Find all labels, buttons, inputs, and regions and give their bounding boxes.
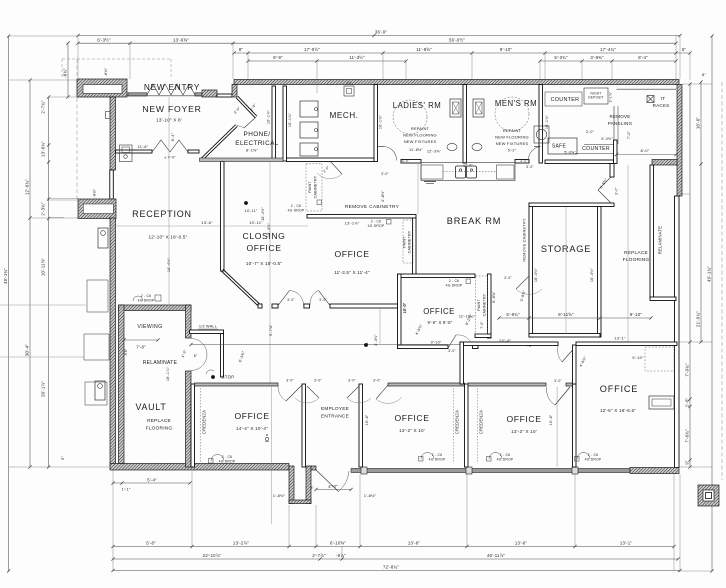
svg-text:3'-1⅝": 3'-1⅝" [609, 91, 613, 102]
vault right wall lower [186, 371, 192, 467]
mech panel 1 [300, 101, 318, 117]
svg-text:2 - C6: 2 - C6 [371, 220, 381, 224]
svg-text:9'-7¾": 9'-7¾" [269, 324, 273, 336]
svg-text:ø: ø [266, 433, 268, 437]
svg-text:3'-0": 3'-0" [586, 130, 595, 134]
svg-text:FLOORING: FLOORING [146, 426, 173, 432]
svg-text:10'-0": 10'-0" [403, 302, 407, 313]
canopy dashed outline [62, 58, 171, 60]
dim bottom row2 [113, 558, 678, 560]
svg-text:9'-10": 9'-10" [431, 341, 442, 345]
svg-text:13'-6": 13'-6" [201, 220, 213, 225]
entry storefront glass left [128, 93, 147, 96]
svg-text:5'-4": 5'-4" [147, 477, 157, 482]
svg-text:OFFICE: OFFICE [423, 307, 455, 316]
svg-text:REPAINT: REPAINT [503, 128, 522, 133]
storage bottom dim line [499, 317, 651, 319]
middle office north wall [307, 215, 416, 219]
svg-text:12'-5" X 16'-6.5": 12'-5" X 16'-6.5" [600, 408, 636, 413]
employee alcove left wall [289, 466, 294, 504]
dim connector y217 [49, 217, 64, 219]
reception centerline [168, 97, 170, 305]
svg-text:4G DROP: 4G DROP [288, 209, 305, 213]
svg-text:RACKS: RACKS [653, 103, 670, 108]
svg-text:8": 8" [239, 47, 244, 52]
big office dotted closet [645, 347, 674, 371]
bottom wall stub right of alcove [311, 466, 316, 470]
entry corner post [232, 85, 237, 98]
ladies sink [447, 143, 457, 150]
mens east wall [539, 85, 543, 164]
svg-text:5'-3¾": 5'-3¾" [554, 55, 568, 60]
office2 door [555, 387, 570, 405]
top main wall [234, 80, 679, 85]
svg-text:RELAMINATE: RELAMINATE [658, 226, 663, 254]
vault left wall [119, 305, 125, 464]
closing office diagonal wall [221, 271, 259, 307]
svg-text:10'-8": 10'-8" [365, 414, 369, 425]
extension line x557 [556, 387, 558, 467]
kitchen dw box [421, 165, 443, 179]
office1 door [376, 385, 388, 399]
svg-text:14'-4" X 10'-4": 14'-4" X 10'-4" [236, 426, 268, 431]
svg-text:16'-4½": 16'-4½" [590, 267, 594, 282]
entry corner hatched block [202, 90, 217, 97]
svg-text:9'-10": 9'-10" [500, 47, 512, 52]
dim right col inner [689, 84, 691, 467]
svg-text:8'-4": 8'-4" [171, 132, 175, 141]
svg-text:PHONE/: PHONE/ [244, 131, 271, 138]
svg-text:30'-4": 30'-4" [25, 344, 30, 356]
corridor dim line [191, 344, 529, 346]
svg-text:MECH.: MECH. [330, 111, 359, 120]
svg-text:13'-6¾": 13'-6¾" [41, 141, 46, 157]
svg-text:4G DROP: 4G DROP [219, 460, 236, 464]
it room inner face line [617, 88, 677, 90]
paint cab note 2 [403, 220, 413, 263]
dim left col3 [48, 97, 50, 467]
big office window box [649, 396, 674, 409]
svg-text:5": 5" [682, 47, 687, 52]
small office west wall [398, 274, 402, 349]
svg-text:8'-0": 8'-0" [641, 148, 650, 153]
svg-text:49'-1¾": 49'-1¾" [707, 266, 712, 282]
column detail [698, 485, 719, 506]
svg-text:3'-0": 3'-0" [373, 379, 381, 383]
paint cab note 3 [476, 276, 488, 334]
safe box [548, 138, 577, 154]
svg-text:56'-0½": 56'-0½" [449, 37, 465, 42]
breakrm centerline [417, 163, 419, 214]
entry corner block NW [77, 79, 127, 97]
paint cab note 1 [306, 164, 322, 212]
svg-text:-8¾": -8¾" [63, 68, 68, 78]
small office north wall [398, 274, 476, 278]
vault right wall upper [186, 305, 192, 338]
dim connector y198 [47, 197, 78, 199]
foyer south wall right [188, 150, 199, 153]
teller counter vertical [613, 106, 615, 144]
svg-text:10'-7" X 18'-0.5": 10'-7" X 18'-0.5" [246, 261, 282, 266]
svg-text:COUNTER: COUNTER [551, 97, 580, 103]
svg-text:3'-0": 3'-0" [286, 379, 294, 383]
svg-text:OFFICE: OFFICE [394, 413, 429, 423]
svg-text:10'-6": 10'-6" [696, 117, 701, 129]
employee entrance doors [307, 386, 319, 398]
svg-text:OFFICE: OFFICE [334, 249, 369, 259]
svg-text:10'-1⅝": 10'-1⅝" [267, 109, 271, 124]
mid office south wall long [330, 304, 398, 308]
viewing dim line [124, 339, 158, 341]
closing top wall [200, 158, 284, 162]
svg-text:7'-9¾": 7'-9¾" [685, 363, 690, 377]
kitchen dotted line [443, 171, 497, 173]
svg-text:16'-4½": 16'-4½" [534, 267, 538, 282]
middle office east wall [413, 218, 417, 275]
dim top row2 [78, 42, 676, 44]
svg-text:6'-3½": 6'-3½" [97, 37, 111, 42]
office1 north wall [388, 383, 465, 386]
counter1 outline [545, 92, 582, 106]
svg-text:11'-9⅝": 11'-9⅝" [416, 47, 432, 52]
employee alcove bottom [289, 500, 311, 504]
svg-text:-9⅞": -9⅞" [336, 553, 346, 558]
svg-text:12'-3⅝": 12'-3⅝" [427, 150, 442, 154]
left wall lower [110, 218, 116, 466]
mech vent [344, 86, 354, 96]
svg-text:1'-8½": 1'-8½" [273, 493, 286, 498]
svg-text:3'-9⅜": 3'-9⅜" [590, 55, 604, 60]
dim left col4 [67, 43, 69, 97]
foyer wall box [106, 112, 111, 119]
svg-text:9'-10": 9'-10" [630, 312, 642, 317]
svg-text:13'-2" X 10': 13'-2" X 10' [399, 428, 425, 433]
svg-text:1¼: 1¼ [346, 81, 351, 85]
svg-text:VAULT: VAULT [135, 402, 166, 412]
svg-text:OFFICE: OFFICE [600, 384, 639, 394]
extension line x380 [379, 308, 381, 344]
ladies door [384, 147, 397, 161]
right area centerline [627, 165, 629, 342]
svg-text:CLOSING: CLOSING [243, 231, 286, 241]
svg-text:3'-0": 3'-0" [526, 165, 534, 169]
dim top row4a [248, 60, 406, 62]
it door jamb wall [614, 140, 618, 164]
svg-text:8": 8" [194, 354, 198, 358]
big office north wall [460, 342, 558, 346]
svg-text:9": 9" [685, 460, 690, 465]
drive island 2 [84, 334, 109, 360]
office1440 east wall [302, 384, 306, 467]
svg-text:-8¾": -8¾" [93, 188, 97, 197]
office1440 door [286, 385, 302, 401]
svg-text:±0'-0": ±0'-0" [463, 164, 473, 168]
svg-text:SAFE: SAFE [552, 144, 567, 150]
svg-text:3'-0": 3'-0" [448, 349, 456, 353]
office2 east wall [573, 384, 577, 467]
svg-text:12'-6¾": 12'-6¾" [25, 179, 30, 195]
svg-text:3'-0": 3'-0" [314, 379, 322, 383]
svg-text:3'-0": 3'-0" [319, 298, 327, 302]
svg-text:2'-7¾": 2'-7¾" [41, 100, 46, 114]
svg-text:10'-1⅝": 10'-1⅝" [288, 112, 292, 127]
kitchen front hatch [424, 181, 436, 183]
svg-text:13'-1": 13'-1" [614, 336, 626, 341]
svg-text:11'-8½": 11'-8½" [409, 148, 423, 152]
relaminate stub wall [650, 297, 676, 301]
svg-text:3'-0": 3'-0" [381, 172, 389, 176]
svg-text:REMOVE CABINETRY: REMOVE CABINETRY [522, 218, 527, 262]
mens south wall [515, 160, 529, 164]
office1440 north wall [195, 383, 279, 386]
svg-text:5'-0⅝": 5'-0⅝" [564, 151, 576, 155]
svg-text:36'-9": 36'-9" [375, 30, 387, 35]
entry storefront glass right [195, 93, 202, 96]
svg-text:REMOVE CABINETRY: REMOVE CABINETRY [345, 204, 400, 210]
dim bottom extension lines [112, 470, 114, 571]
svg-text:OFFICE: OFFICE [506, 414, 541, 424]
mech south wall [287, 158, 375, 162]
svg-text:NEW FOYER: NEW FOYER [142, 104, 201, 114]
dashed property line right [721, 82, 723, 480]
foyer fountain [120, 145, 133, 162]
svg-text:8'-11⅝": 8'-11⅝" [558, 312, 574, 317]
svg-text:NEW ENTRY: NEW ENTRY [144, 83, 200, 92]
mens dashed circle [495, 97, 529, 131]
svg-text:RELAMINATE: RELAMINATE [143, 360, 178, 366]
svg-text:17'-4¾": 17'-4¾" [600, 47, 616, 52]
employee alcove right wall [306, 466, 311, 504]
new entry door pair 2 [171, 84, 183, 95]
half wall [190, 330, 224, 334]
mech panel 3 [300, 143, 318, 156]
closing office west wall [221, 162, 225, 272]
counter2 lines [584, 144, 614, 146]
small office door [448, 335, 456, 348]
svg-text:1'-8½": 1'-8½" [364, 493, 377, 498]
kitchen right box [497, 165, 515, 179]
closing office south wall [258, 304, 262, 308]
svg-text:ELECTRICAL: ELECTRICAL [235, 140, 278, 147]
storage west wall [529, 203, 533, 337]
svg-text:NEW FLOORING: NEW FLOORING [403, 133, 437, 138]
new entry door pair 1 [147, 84, 159, 95]
dim bottom 4'-0 line [316, 489, 351, 491]
svg-text:5": 5" [60, 456, 65, 460]
phone SW diagonal wall [200, 125, 236, 160]
closing door 1 [278, 291, 290, 306]
svg-text:2'-3¾": 2'-3¾" [41, 202, 46, 216]
svg-text:18'-1⅞": 18'-1⅞" [166, 366, 170, 381]
restroom divider wall [463, 85, 467, 164]
ladies toilet [450, 99, 461, 117]
drive-up unit B [95, 381, 105, 400]
vault door swing [191, 339, 207, 371]
svg-text:VIEWING: VIEWING [137, 324, 162, 330]
svg-text:3'-0": 3'-0" [348, 379, 356, 383]
employee door leaf [316, 470, 339, 492]
svg-text:8'-1⅝": 8'-1⅝" [246, 149, 258, 153]
svg-text:DEPOSIT: DEPOSIT [588, 96, 603, 100]
svg-text:3'-0": 3'-0" [287, 298, 295, 302]
svg-text:CABINETRY: CABINETRY [314, 175, 318, 198]
svg-text:PAINT: PAINT [477, 299, 481, 311]
svg-text:13'-6⅝": 13'-6⅝" [173, 37, 189, 42]
left wall window recess [110, 170, 114, 199]
svg-text:2 - C6: 2 - C6 [449, 279, 459, 283]
svg-text:8": 8" [702, 72, 706, 77]
svg-text:18'-4½": 18'-4½" [261, 207, 265, 221]
svg-text:± 4'-0": ± 4'-0" [164, 156, 176, 160]
dim right col mid [700, 82, 702, 342]
svg-text:IT: IT [661, 96, 665, 101]
svg-text:3'-0": 3'-0" [554, 379, 562, 383]
svg-text:1'-1": 1'-1" [122, 487, 131, 492]
phone door leaf [244, 117, 256, 128]
svg-text:21'-9¾": 21'-9¾" [696, 311, 701, 327]
svg-text:13'-1": 13'-1" [620, 540, 632, 545]
svg-text:6'-10⅝": 6'-10⅝" [330, 540, 346, 545]
svg-text:7'-0": 7'-0" [480, 321, 484, 329]
storage north wall [529, 203, 614, 207]
svg-text:CABINETRY: CABINETRY [483, 293, 487, 316]
ladies south wall [401, 160, 421, 164]
svg-text:5'-8¾": 5'-8¾" [492, 291, 496, 303]
svg-text:3'-0": 3'-0" [615, 187, 619, 195]
water heater [534, 126, 549, 143]
reception centerline 2 [269, 162, 271, 384]
phone NW diagonal wall [236, 98, 255, 118]
svg-text:2 - C6: 2 - C6 [141, 294, 151, 298]
kitchen counter outline [421, 163, 515, 181]
bottom wall left hatched [110, 464, 289, 471]
mech west wall [283, 86, 287, 161]
dim top row1 36'-9" [78, 35, 680, 37]
svg-text:NEW FIXTURES: NEW FIXTURES [404, 139, 437, 144]
svg-text:11'-8": 11'-8" [138, 145, 149, 149]
dim top row3 [234, 52, 690, 54]
teller window C [78, 199, 116, 219]
svg-text:5'-8": 5'-8" [146, 540, 156, 545]
svg-text:CREDENZA: CREDENZA [455, 410, 460, 434]
reception dim line [115, 225, 308, 227]
svg-text:8'-9": 8'-9" [273, 55, 283, 60]
svg-text:PAINT: PAINT [403, 236, 407, 248]
drive lane line 3 [0, 304, 86, 306]
office1440 ext line [271, 386, 273, 524]
mech panel 2 [300, 122, 318, 138]
office1 east wall [465, 384, 469, 467]
svg-text:3'-0": 3'-0" [520, 159, 528, 163]
drive island 3 [85, 382, 107, 405]
office2 credenza [477, 388, 479, 463]
svg-text:OFFICE: OFFICE [246, 243, 281, 253]
svg-text:11'-3½": 11'-3½" [349, 55, 365, 60]
svg-text:5'-8¾": 5'-8¾" [506, 312, 520, 317]
svg-text:1/2 WALL: 1/2 WALL [199, 325, 217, 329]
dim left extension stubs [9, 79, 77, 81]
svg-text:10'-8": 10'-8" [549, 414, 553, 425]
svg-text:BREAK RM: BREAK RM [447, 216, 501, 226]
svg-text:OFFICE: OFFICE [234, 411, 269, 421]
it dim 8-0 line [617, 154, 677, 156]
svg-text:RECEPTION: RECEPTION [132, 209, 192, 219]
svg-text:13'-1⅞": 13'-1⅞" [345, 221, 360, 226]
svg-text:4G DROP: 4G DROP [585, 458, 602, 462]
svg-text:FLOORING: FLOORING [623, 257, 650, 263]
entry wall to corner [217, 94, 232, 97]
south wall door post [304, 304, 310, 308]
closing door 2 (mid office) [319, 291, 331, 306]
entry threshold line [127, 95, 202, 97]
replace flooring wall [650, 165, 654, 299]
storage east wall [598, 207, 602, 338]
svg-text:49'-1¾": 49'-1¾" [3, 268, 8, 284]
svg-text:REPLACE: REPLACE [624, 250, 648, 256]
svg-text:9'-10": 9'-10" [632, 355, 644, 360]
replace flooring west wall stub [610, 164, 614, 178]
svg-text:STOP: STOP [222, 375, 235, 380]
svg-text:10'-11": 10'-11" [245, 209, 258, 213]
svg-text:7'-6¾": 7'-6¾" [685, 429, 690, 443]
bottom wall posts [361, 467, 367, 474]
svg-text:1'-6": 1'-6" [685, 397, 690, 407]
svg-text:10'-11⅝": 10'-11⅝" [41, 258, 46, 276]
svg-text:10'-1⅝": 10'-1⅝" [545, 114, 549, 129]
svg-text:3'-0": 3'-0" [402, 159, 410, 163]
it wall stub [652, 160, 677, 166]
corridor dot 2 [528, 343, 532, 347]
big office door [562, 346, 576, 362]
svg-text:CREDENZA: CREDENZA [479, 410, 484, 434]
svg-text:CREDENZA: CREDENZA [202, 410, 207, 434]
it racks checkbox [647, 96, 654, 103]
small office south wall [398, 345, 449, 349]
ladies dashed circle [393, 100, 427, 134]
svg-text:8'8": 8'8" [124, 348, 128, 355]
credenza office1440 [200, 388, 202, 463]
mens sink [472, 143, 482, 150]
dim bottom small row A [113, 482, 190, 484]
svg-text:2'-7⅞": 2'-7⅞" [312, 553, 326, 558]
svg-text:9'-6" X 9'-8": 9'-6" X 9'-8" [428, 320, 453, 325]
svg-text:LADIES' RM: LADIES' RM [393, 101, 442, 110]
svg-text:-8¾": -8¾" [104, 67, 108, 76]
foyer south wall left [116, 150, 153, 153]
svg-text:17'-0½": 17'-0½" [304, 47, 320, 52]
svg-text:REMOVE: REMOVE [609, 114, 630, 119]
svg-text:12'-10" X 18'-0.5": 12'-10" X 18'-0.5" [148, 235, 187, 240]
drive lane dashed line [76, 59, 78, 199]
svg-text:5'-2": 5'-2" [508, 149, 517, 153]
mens door [528, 147, 540, 161]
office1 credenza [453, 388, 455, 463]
svg-text:13'-10" X 8': 13'-10" X 8' [156, 118, 182, 123]
svg-text:10'-1⅝": 10'-1⅝" [379, 114, 383, 129]
mens toilet [473, 99, 484, 117]
bottom wall glass run 1 [351, 469, 576, 473]
svg-text:3'-3⅜": 3'-3⅜" [374, 334, 378, 346]
svg-text:MEN'S RM: MEN'S RM [495, 99, 537, 108]
dim top extension lines [129, 43, 131, 79]
svg-text:72'-8¾": 72'-8¾" [383, 565, 399, 570]
svg-text:COUNTER: COUNTER [582, 146, 610, 152]
bottom wall glass run 2 [578, 469, 630, 473]
kitchen sink double [456, 166, 466, 178]
ladies west wall [374, 85, 378, 162]
svg-text:8'-4": 8'-4" [638, 55, 648, 60]
right wall lower [675, 196, 680, 468]
